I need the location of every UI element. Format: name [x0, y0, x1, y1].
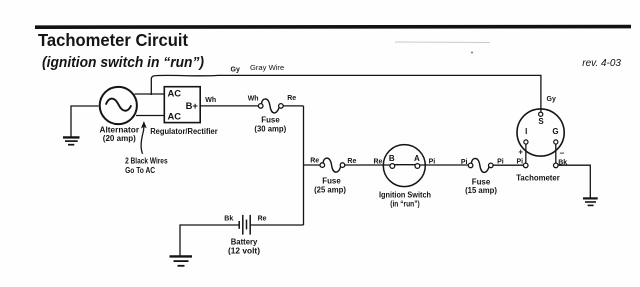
- ground alternator: [63, 106, 99, 145]
- label Re at battery: [258, 215, 267, 222]
- scan artifact faint line: [395, 42, 490, 54]
- wire fuse F2 to ignition switch: [345, 164, 390, 166]
- pin label A: [414, 154, 420, 163]
- svg-text:S: S: [538, 117, 544, 126]
- label Wh at B+: [205, 97, 216, 104]
- label Pi after switch: [429, 159, 436, 166]
- wire main run from feeder to fuse F2: [304, 164, 321, 166]
- pin label B: [389, 154, 395, 163]
- svg-text:Wh: Wh: [248, 96, 259, 103]
- wire fuse F3 to tachometer + terminal: [493, 164, 523, 166]
- label Pi before fuse F3: [461, 159, 468, 166]
- label Re before fuse F2: [310, 158, 319, 165]
- node plus terminal: [523, 163, 528, 168]
- wire minus terminal to ground: [558, 165, 590, 198]
- svg-text:rev. 4-03: rev. 4-03: [582, 58, 621, 69]
- ground tachometer: [583, 198, 598, 205]
- svg-text:Re: Re: [258, 215, 267, 222]
- pin label B+: [186, 100, 199, 111]
- wire feeder vertical: [303, 106, 305, 225]
- wire battery row right: [251, 224, 304, 226]
- svg-text:Pi: Pi: [429, 159, 436, 166]
- svg-text:I: I: [525, 127, 527, 136]
- wire G terminal down to node: [555, 144, 557, 163]
- annotation arrow to AC wires: [141, 121, 147, 154]
- svg-text:B: B: [389, 154, 395, 163]
- label minus: [560, 147, 565, 157]
- label Fuse (15 amp): [465, 176, 497, 195]
- label plus: [518, 148, 523, 157]
- svg-text:(15 amp): (15 amp): [465, 185, 497, 195]
- label Re after fuse F2: [347, 158, 356, 165]
- svg-text:Wh: Wh: [205, 97, 216, 104]
- fuse F1 30 amp: [258, 99, 283, 113]
- svg-text:Gy: Gy: [231, 67, 240, 74]
- svg-text:Gray Wire: Gray Wire: [250, 63, 284, 72]
- svg-text:+: +: [518, 148, 523, 157]
- title Tachometer Circuit: [38, 30, 188, 50]
- svg-text:Re: Re: [347, 158, 356, 165]
- ignition switch S1: [383, 145, 425, 187]
- svg-text:A: A: [414, 154, 420, 163]
- label Tachometer: [516, 173, 560, 183]
- svg-text:(30 amp): (30 amp): [254, 124, 286, 134]
- label Re after fuse F1: [287, 95, 296, 102]
- svg-text:B+: B+: [186, 100, 199, 111]
- svg-text:Re: Re: [374, 159, 383, 166]
- label Bk at tachometer: [558, 159, 567, 166]
- wire alternator to regulator AC top: [135, 93, 165, 95]
- svg-text:Regulator/Rectifier: Regulator/Rectifier: [150, 126, 218, 136]
- label Fuse (30 amp): [254, 114, 286, 133]
- svg-text:G: G: [552, 127, 558, 136]
- label Fuse (25 amp): [314, 175, 346, 194]
- svg-text:(20 amp): (20 amp): [103, 133, 136, 143]
- label Gy at tachometer: [547, 96, 556, 103]
- label Gy on gray wire: [231, 67, 240, 74]
- label Gray Wire: [250, 63, 284, 72]
- top rule: [35, 25, 631, 29]
- svg-text:AC: AC: [168, 111, 182, 122]
- svg-text:Tachometer Circuit: Tachometer Circuit: [38, 30, 188, 50]
- label 2 Black Wires / Go To AC: [125, 156, 168, 175]
- label Regulator/Rectifier: [150, 126, 218, 136]
- label Re before switch: [374, 159, 383, 166]
- svg-text:(25 amp): (25 amp): [314, 185, 346, 195]
- node minus terminal: [554, 163, 559, 168]
- rev label: [582, 58, 621, 69]
- tachometer M1: [517, 109, 564, 156]
- pin label AC bottom: [168, 111, 182, 122]
- wire alternator to regulator AC bottom: [136, 115, 164, 117]
- svg-text:Re: Re: [287, 95, 296, 102]
- pin label S: [538, 117, 544, 126]
- svg-text:(in “run”): (in “run”): [390, 199, 420, 209]
- pin label G: [552, 127, 558, 136]
- svg-text:–: –: [560, 147, 565, 157]
- wire I terminal down to node: [525, 144, 527, 168]
- subtitle (ignition switch in run): [42, 55, 204, 71]
- wire B+ to fuse F1: [200, 105, 258, 107]
- svg-text:AC: AC: [168, 88, 182, 99]
- svg-text:Gy: Gy: [547, 96, 556, 103]
- svg-text:Go To AC: Go To AC: [125, 165, 155, 175]
- regulator/rectifier box U1: [164, 87, 200, 123]
- battery B1: [239, 215, 250, 235]
- label Pi after fuse F3: [497, 159, 504, 166]
- fuse F2 25 amp: [320, 158, 345, 172]
- label Alternator (20 amp): [100, 125, 140, 143]
- wire battery row left: [180, 225, 239, 256]
- alternator circle: [100, 87, 137, 124]
- ground battery: [170, 256, 193, 265]
- svg-text:Pi: Pi: [517, 159, 524, 166]
- svg-text:Bk: Bk: [224, 215, 233, 222]
- svg-text:Re: Re: [310, 158, 319, 165]
- svg-text:Pi: Pi: [461, 159, 468, 166]
- pin label I: [525, 127, 527, 136]
- label Battery (12 volt): [228, 236, 260, 255]
- wire fuse F1 to feeder node: [283, 105, 303, 107]
- label Wh before fuse F1: [248, 96, 259, 103]
- label Pi at tachometer: [517, 159, 524, 166]
- label Ignition Switch (in run): [379, 189, 431, 208]
- fuse F3 15 amp: [468, 158, 493, 172]
- label Bk at battery: [224, 215, 233, 222]
- wire gray S-wire from regulator to tachometer: [151, 75, 541, 112]
- svg-text:(12 volt): (12 volt): [228, 246, 260, 256]
- svg-text:Tachometer: Tachometer: [516, 173, 560, 183]
- pin label AC top: [168, 88, 182, 99]
- wire switch to fuse F3: [420, 164, 469, 166]
- svg-text:(ignition switch in “run”): (ignition switch in “run”): [42, 55, 204, 71]
